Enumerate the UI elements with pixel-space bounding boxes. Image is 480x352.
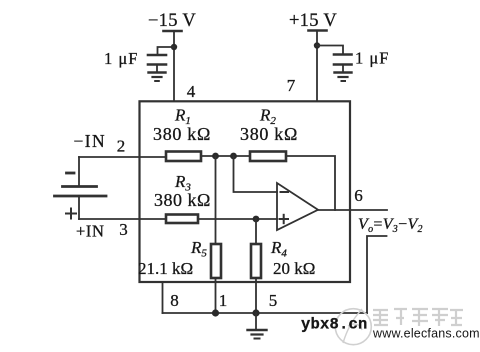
svg-text:6: 6 [354,186,363,205]
watermark elecfans url [372,327,480,341]
node dot pin 5 on bus [252,309,259,316]
svg-text:−IN: −IN [74,131,107,151]
watermark ybx8.cn [301,316,368,334]
svg-text:380 kΩ: 380 kΩ [154,190,211,210]
svg-text:4: 4 [187,82,196,101]
pin 1 label [219,291,228,310]
pin 3 label [119,220,128,239]
label -IN [74,131,107,151]
node A dot (inverting tap) [230,153,237,160]
watermark elecfans chinese text [373,309,463,326]
resistor R4 [251,244,261,278]
wire: R2 to output (feedback) [286,156,335,210]
svg-text:+IN: +IN [76,222,105,241]
svg-text:2: 2 [117,137,126,156]
capacitor C1 [148,55,166,65]
svg-text:20 kΩ: 20 kΩ [273,259,315,278]
ground (main, below bus) [248,313,267,339]
ground (below C1) [149,65,166,82]
resistor R2 [250,152,286,162]
wire: junction to capacitor C2 [317,46,343,54]
svg-text:7: 7 [287,76,296,95]
wire: ground bus [163,312,368,314]
svg-text:8: 8 [170,291,179,310]
label R3 [174,172,191,194]
capacitor C2 [334,55,352,65]
wire: +IN pin 3 into R3 [79,218,166,220]
label R1 [174,106,191,128]
label R3 value 380k [154,190,211,210]
watermark logo circle [335,309,371,345]
wire: R4 to pin 5 [255,278,257,313]
resistor R1 [166,152,201,162]
node: -15V / C1 junction [171,44,177,50]
svg-text:R5: R5 [190,238,207,260]
label R5 [190,238,207,260]
wire: -IN pin 2 into R1 [79,156,166,158]
svg-text:380 kΩ: 380 kΩ [153,124,211,144]
supply terminal +15V [289,11,337,31]
label R2 [259,106,276,128]
wire: node B down to R4 [255,219,257,244]
node dot pin 1 on bus [212,309,219,316]
node B dot (R4 tap) [253,216,260,223]
svg-text:−15 V: −15 V [148,11,196,31]
wire: node A to inverting input [234,156,278,192]
wire: R5 to pin 1 [215,278,217,313]
pin 4 label [187,82,196,101]
IC boundary box [140,101,351,282]
svg-text:Vo=V3−V2: Vo=V3−V2 [358,216,423,235]
resistor R3 [166,215,198,224]
ground (below C2) [335,65,352,82]
svg-text:1 μF: 1 μF [104,49,138,68]
battery source [55,157,107,219]
node: +15V / C2 junction [314,42,320,48]
wire: output load return [367,236,387,313]
label C2 value 1uF [355,49,389,68]
label R1 value 380k [153,124,211,144]
label +IN [76,222,105,241]
svg-text:1 μF: 1 μF [355,49,389,68]
wire: R1 to R2 (node A bus) [201,155,250,157]
wire: -15V bar down to pin 4 [173,31,175,101]
svg-text:3: 3 [119,220,128,239]
pin 7 label [287,76,296,95]
label Vo = V3 - V2 [358,216,423,235]
svg-text:21.1 kΩ: 21.1 kΩ [138,259,193,278]
wire: junction to capacitor C1 [158,47,175,54]
label C1 value 1uF [104,49,138,68]
label R5 value 21.1k [138,259,193,278]
wire: R3 to noninverting input [198,218,277,220]
label R4 [270,238,287,260]
pin 2 label [117,137,126,156]
svg-text:ybx8.cn: ybx8.cn [301,316,368,334]
pin 5 label [269,291,278,310]
svg-text:1: 1 [219,291,228,310]
wire: op-amp output to pin 6 terminal [318,209,387,211]
wire: pin 8 down to ground bus [162,283,164,314]
wire: node A down to R5 [215,156,217,244]
pin 8 label [170,291,179,310]
svg-text:+15 V: +15 V [289,11,337,31]
svg-text:5: 5 [269,291,278,310]
resistor R5 [211,244,221,278]
pin 6 label [354,186,363,205]
node A dot (R5 tap) [212,153,219,160]
label R2 value 380k [240,124,298,144]
supply terminal -15V [148,11,196,31]
op-amp U1 [277,183,318,230]
wire: +15V bar down to pin 7 [316,31,318,102]
label R4 value 20k [273,259,315,278]
svg-text:www.elecfans.com: www.elecfans.com [372,327,480,341]
svg-text:380 kΩ: 380 kΩ [240,124,298,144]
svg-text:R4: R4 [270,238,287,260]
